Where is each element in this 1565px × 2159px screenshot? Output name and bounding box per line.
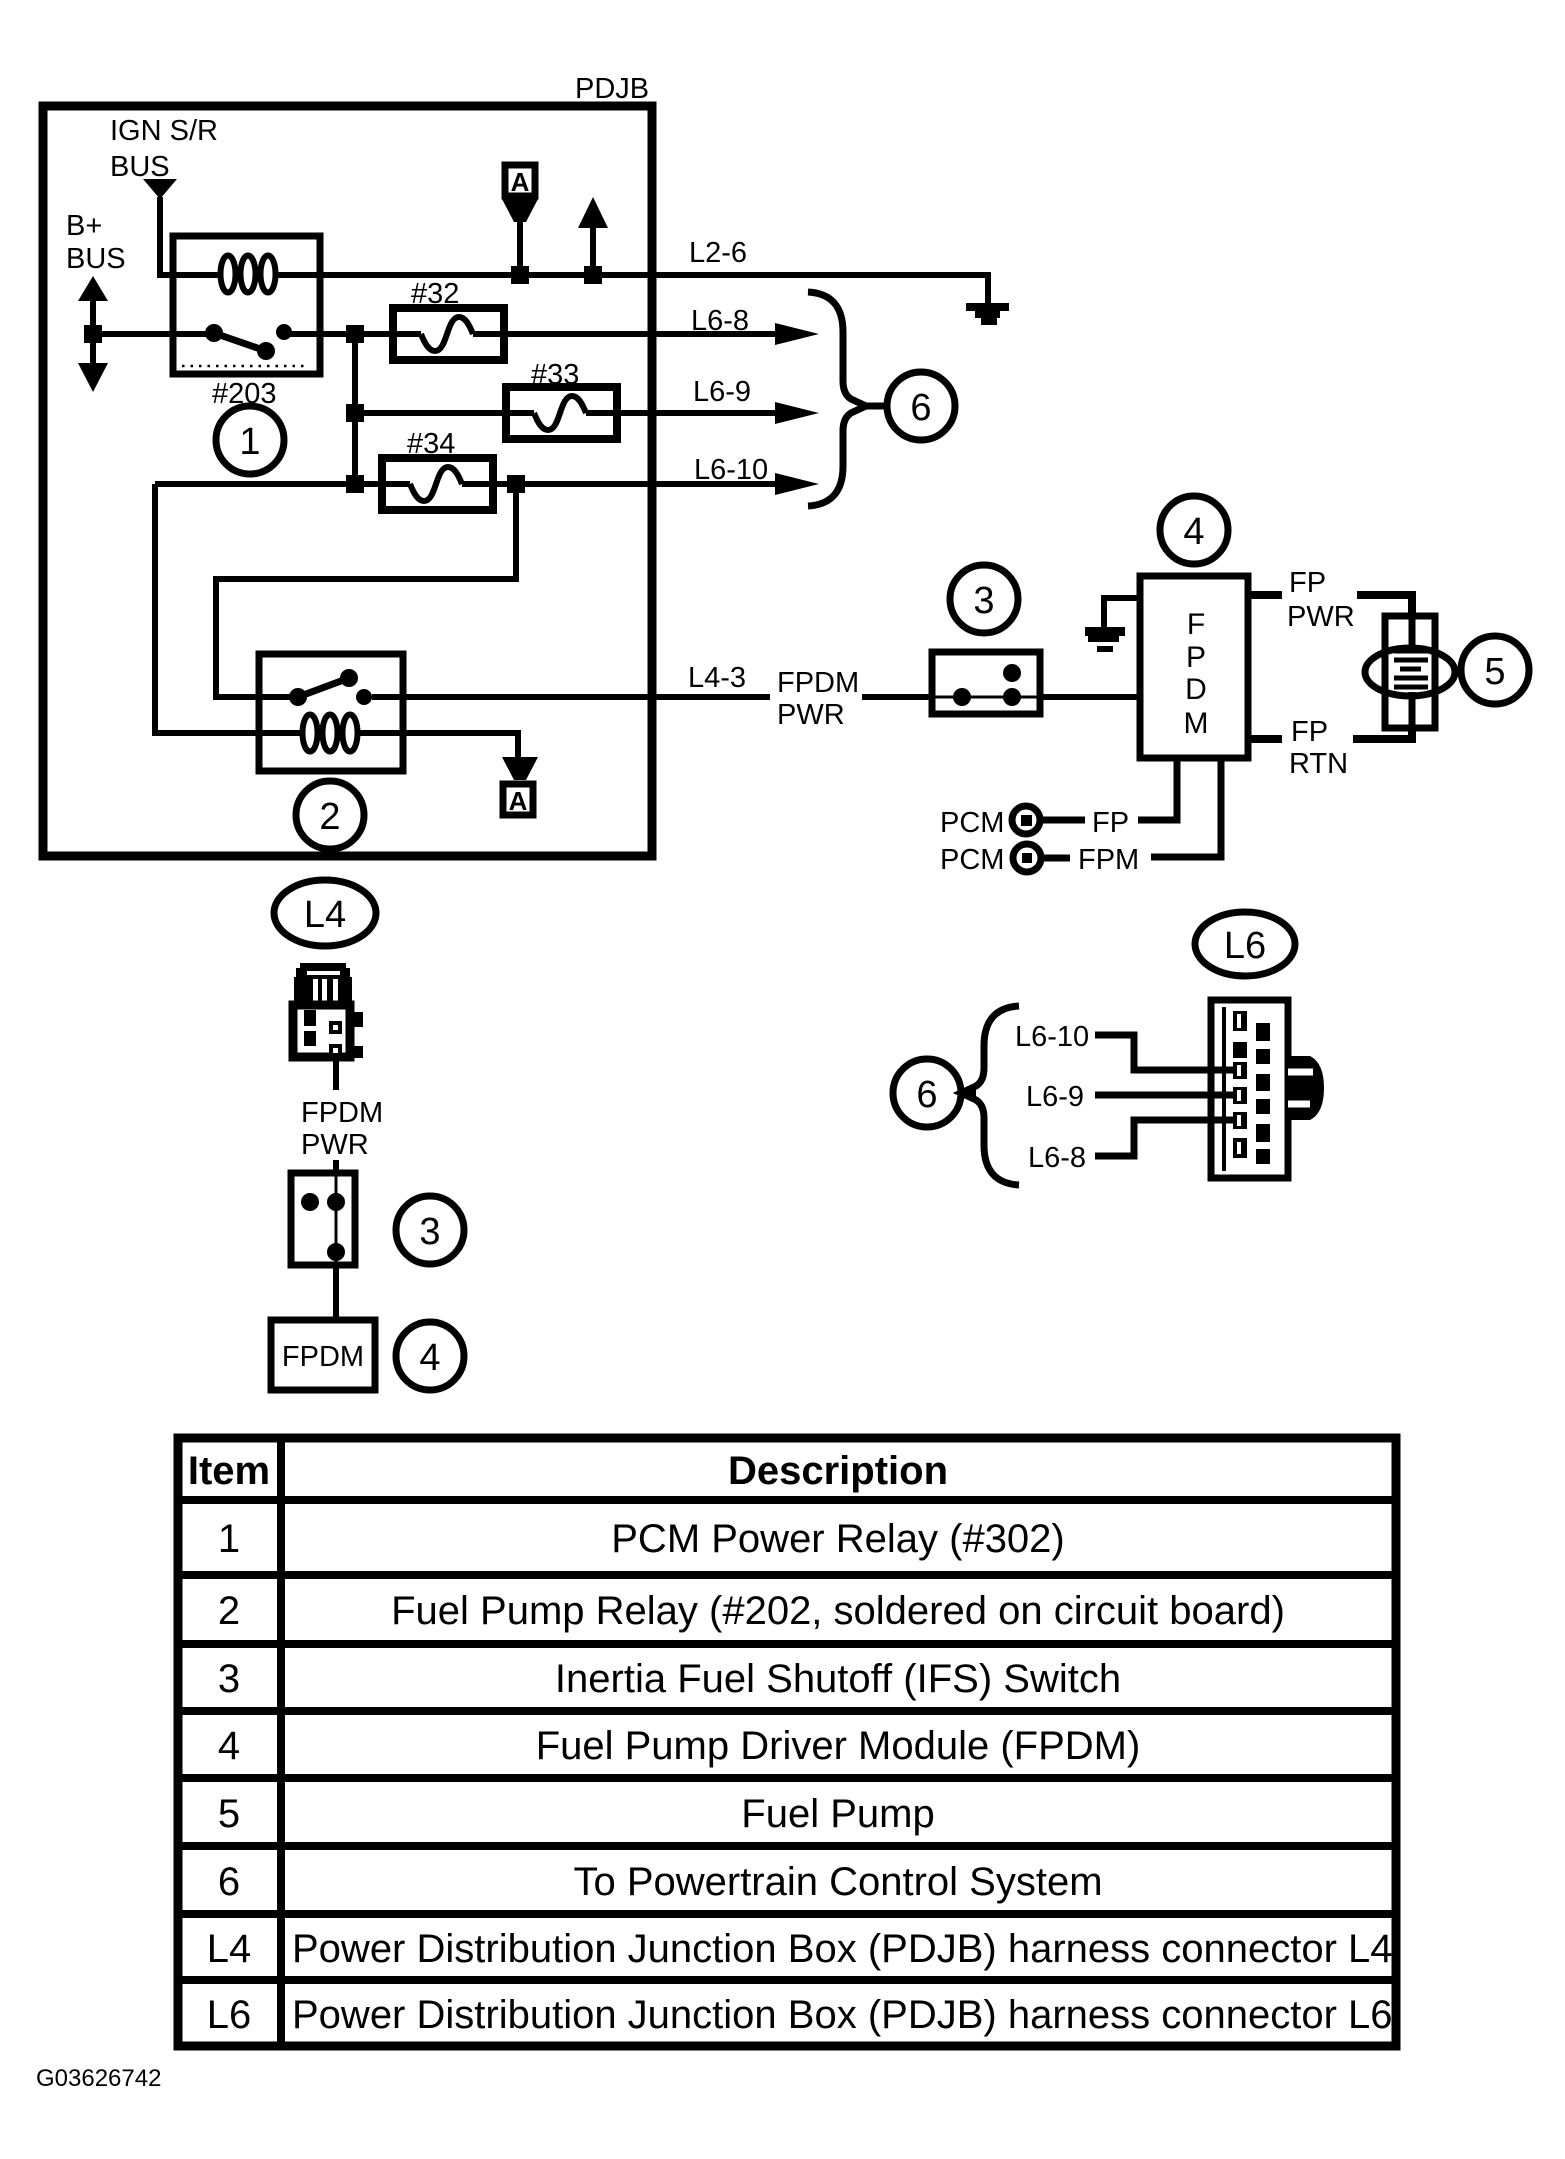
svg-text:4: 4	[419, 1337, 440, 1379]
svg-text:4: 4	[1183, 511, 1204, 553]
brace stub to circle 6	[864, 403, 886, 410]
wire relay2 switch to L4-3	[403, 694, 770, 700]
junction at up-arrow	[584, 266, 602, 284]
svg-text:1: 1	[218, 1517, 240, 1561]
wire IGN arrow to relay coil	[160, 197, 175, 275]
svg-text:L6-8: L6-8	[1028, 1142, 1086, 1174]
svg-text:L4: L4	[304, 894, 346, 936]
svg-text:L6-10: L6-10	[694, 454, 768, 486]
wire B+ to relay switch	[93, 331, 173, 337]
svg-text:PCM Power Relay (#302): PCM Power Relay (#302)	[611, 1517, 1065, 1561]
wire L6-8 to connector	[1095, 1120, 1240, 1156]
svg-text:L6: L6	[207, 1993, 252, 2037]
svg-text:PCM: PCM	[940, 807, 1004, 839]
wire label to IFS (vertical)	[333, 1160, 339, 1173]
brace (L6 group)	[961, 1006, 1019, 1185]
wire FPDM to ground	[1104, 598, 1140, 627]
junction at connector A stem	[511, 266, 529, 284]
relay #203 coil	[173, 256, 320, 293]
svg-text:Fuel Pump Driver Module (FPDM): Fuel Pump Driver Module (FPDM)	[536, 1724, 1141, 1768]
L6 oval	[1195, 912, 1295, 976]
svg-text:BUS: BUS	[66, 243, 126, 275]
svg-text:PDJB: PDJB	[575, 73, 649, 105]
brace to circle 6	[808, 292, 866, 506]
wire L2-6 drop to ground	[985, 275, 988, 304]
fuse #32	[393, 308, 504, 360]
arrowhead L6-9	[775, 402, 819, 424]
table rows text	[207, 1517, 1393, 2037]
circle 1	[216, 406, 284, 474]
L4 oval	[274, 880, 376, 946]
FP PWR stub	[1248, 591, 1282, 599]
svg-text:B+: B+	[66, 210, 102, 242]
up arrow (from A ref)	[578, 197, 608, 272]
svg-text:To Powertrain Control System: To Powertrain Control System	[573, 1860, 1102, 1904]
svg-text:5: 5	[218, 1792, 240, 1836]
fuse #33	[506, 387, 617, 439]
B+ bus double arrow	[78, 276, 108, 392]
svg-text:6: 6	[218, 1860, 240, 1904]
relay #203 switch	[173, 324, 320, 360]
svg-text:#33: #33	[531, 359, 579, 391]
svg-text:3: 3	[973, 580, 994, 622]
table header text	[188, 1449, 948, 1493]
wire PCM to FP label	[1043, 817, 1085, 824]
svg-text:FP: FP	[1289, 567, 1326, 599]
PCM ring (FP)	[1012, 806, 1040, 834]
wire relay2 coil to connector A (bottom)	[403, 733, 518, 757]
relay #203 inner dotted edge	[182, 365, 308, 368]
svg-text:2: 2	[319, 796, 340, 838]
svg-text:G03626742: G03626742	[36, 2065, 161, 2092]
svg-text:L6-9: L6-9	[693, 376, 751, 408]
L6 harness connector graphic	[1211, 1000, 1324, 1178]
circle 4 (L4 chain)	[396, 1322, 464, 1390]
wire to IFS switch	[862, 694, 932, 700]
svg-text:PWR: PWR	[301, 1129, 369, 1161]
FPDM box (item 4)	[271, 1320, 375, 1390]
svg-text:FPDM: FPDM	[301, 1097, 383, 1129]
svg-text:FP: FP	[1092, 807, 1129, 839]
svg-text:Power Distribution Junction Bo: Power Distribution Junction Box (PDJB) h…	[292, 1993, 1393, 2037]
circle 4 (right)	[1160, 496, 1228, 564]
circle 3 (right)	[950, 565, 1018, 633]
relay #202 switch	[259, 669, 403, 706]
svg-text:2: 2	[218, 1589, 240, 1633]
svg-text:4: 4	[218, 1724, 240, 1768]
wire FP to FPDM bottom	[1138, 758, 1177, 820]
svg-text:6: 6	[916, 1074, 937, 1116]
relay #203 (item 1) box	[173, 236, 320, 374]
wire FPM to FPDM bottom	[1151, 758, 1221, 857]
arrowhead L6-8	[775, 323, 819, 345]
wire relay coil to L2-6 ground (top run)	[320, 272, 988, 278]
wire L6-10 to connector	[1095, 1035, 1240, 1070]
svg-text:F: F	[1187, 608, 1205, 641]
svg-text:L6: L6	[1224, 925, 1266, 967]
svg-text:Item: Item	[188, 1449, 270, 1493]
junction bus/fuse33	[346, 404, 364, 422]
circle 5	[1461, 636, 1529, 704]
svg-text:IGN S/R: IGN S/R	[110, 115, 218, 147]
FPDM module (item 4) box	[1140, 576, 1248, 758]
svg-text:FPDM: FPDM	[777, 667, 859, 699]
svg-text:P: P	[1186, 641, 1206, 674]
svg-text:1: 1	[239, 421, 260, 463]
svg-text:PWR: PWR	[1287, 601, 1355, 633]
junction after fuse #34	[507, 475, 525, 493]
svg-text:Description: Description	[728, 1449, 948, 1493]
svg-text:L6-9: L6-9	[1026, 1081, 1084, 1113]
wire fuse #34 to arrow L6-10	[493, 481, 788, 487]
wire relay to fuse #32	[320, 331, 393, 337]
svg-text:PCM: PCM	[940, 844, 1004, 876]
svg-text:RTN: RTN	[1289, 748, 1348, 780]
circle 2	[296, 781, 364, 849]
PDJB box	[43, 106, 652, 856]
FP RTN stub	[1248, 735, 1282, 743]
fuel pump (item 5)	[1365, 616, 1455, 728]
svg-text:A: A	[511, 167, 530, 197]
wire fuse34 down-left to relay 2 switch	[216, 484, 516, 697]
svg-text:L6-10: L6-10	[1015, 1021, 1089, 1053]
svg-text:FP: FP	[1291, 716, 1328, 748]
junction bus/fuse34	[346, 475, 364, 493]
wire FP RTN to pump	[1353, 728, 1412, 739]
svg-text:A: A	[509, 786, 528, 816]
fuse #34	[382, 458, 493, 510]
brace stub to circle 6 (bottom)	[959, 1090, 976, 1097]
svg-text:5: 5	[1484, 651, 1505, 693]
wire PCM to FPM label	[1044, 855, 1070, 862]
IFS switch (item 3, vertical)	[291, 1173, 355, 1265]
connector A (top)	[502, 165, 538, 270]
L4 harness connector graphic	[293, 963, 363, 1058]
svg-text:FPM: FPM	[1078, 844, 1139, 876]
circle 6 (top)	[887, 372, 955, 440]
wire IFS to FPDM module	[1040, 694, 1140, 700]
junction at vertical bus top	[346, 325, 364, 343]
PCM ring (FPM)	[1013, 844, 1041, 872]
arrowhead L6-10	[775, 473, 819, 495]
svg-text:Fuel Pump: Fuel Pump	[741, 1792, 934, 1836]
svg-text:#32: #32	[411, 278, 459, 310]
vertical bus on fuse column	[352, 334, 358, 484]
table	[178, 1438, 1396, 2046]
wire bus to fuse #33	[355, 410, 506, 416]
wire fuse #32 to arrow L6-8	[504, 331, 788, 337]
svg-text:3: 3	[218, 1657, 240, 1701]
svg-text:BUS: BUS	[110, 151, 170, 183]
IFS switch (item 3, horizontal)	[932, 652, 1040, 714]
ground (FPDM)	[1085, 627, 1125, 652]
svg-text:L4-3: L4-3	[688, 662, 746, 694]
svg-text:Fuel Pump Relay (#202, soldere: Fuel Pump Relay (#202, soldered on circu…	[391, 1589, 1285, 1633]
wire L6-9 to connector	[1095, 1092, 1240, 1099]
svg-text:L4: L4	[207, 1927, 252, 1971]
wire left leg down to relay 2 coil	[155, 484, 259, 733]
wire left leg to fuse #34	[155, 481, 382, 487]
svg-text:#34: #34	[407, 428, 455, 460]
relay #202 (item 2) box	[259, 654, 403, 771]
svg-text:3: 3	[419, 1211, 440, 1253]
svg-text:FPDM: FPDM	[282, 1341, 364, 1373]
svg-text:L2-6: L2-6	[689, 237, 747, 269]
svg-text:M: M	[1184, 707, 1209, 740]
circle 3 (L4 chain)	[396, 1196, 464, 1264]
svg-text:Inertia Fuel Shutoff (IFS) Swi: Inertia Fuel Shutoff (IFS) Switch	[555, 1657, 1121, 1701]
ground (L2-6)	[966, 303, 1009, 325]
IGN S/R bus arrow	[143, 179, 177, 199]
svg-text:PWR: PWR	[777, 699, 845, 731]
svg-text:6: 6	[910, 387, 931, 429]
wire connector to FPDM PWR label	[333, 1055, 339, 1090]
wire IFS to FPDM box	[333, 1265, 339, 1320]
svg-text:Power Distribution Junction Bo: Power Distribution Junction Box (PDJB) h…	[292, 1927, 1393, 1971]
svg-text:L6-8: L6-8	[691, 305, 749, 337]
wire fuse #33 to arrow L6-9	[617, 410, 788, 416]
circle 6 (bottom)	[893, 1059, 961, 1127]
svg-text:D: D	[1185, 673, 1207, 706]
relay #202 coil	[259, 715, 403, 752]
wire FP PWR to pump	[1357, 595, 1412, 618]
connector A (bottom)	[502, 757, 538, 816]
